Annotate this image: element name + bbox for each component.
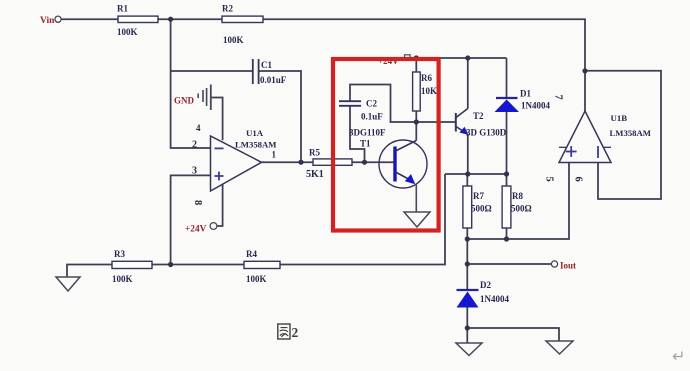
ground below T1 (404, 212, 430, 227)
wire ground to R3 (67, 265, 112, 278)
node Iout junction (465, 261, 470, 266)
wire emitter node horizontal (445, 173, 507, 175)
svg-text:C2: C2 (366, 99, 377, 109)
svg-text:R4: R4 (246, 249, 257, 259)
svg-text:4: 4 (196, 123, 201, 133)
terminal Iout (551, 261, 576, 271)
wire C1 left (171, 70, 253, 72)
ground below D2 left (456, 343, 482, 356)
svg-text:U1B: U1B (611, 113, 628, 123)
svg-text:R6: R6 (421, 73, 432, 83)
svg-text:+24V: +24V (185, 225, 207, 235)
wire U1A output to R5 (262, 161, 314, 163)
svg-text:500Ω: 500Ω (471, 204, 492, 214)
wire pin3 to left rail down to R3-R4 node (171, 175, 211, 264)
node R1-R2 junction (168, 17, 173, 22)
svg-text:T2: T2 (473, 111, 484, 121)
svg-text:LM358AM: LM358AM (235, 140, 277, 150)
svg-text:GND: GND (174, 96, 195, 106)
svg-text:2: 2 (192, 140, 197, 151)
svg-text:1: 1 (272, 150, 277, 160)
wire left rail top: node A down to pin2 (171, 19, 211, 148)
wire R6 leads (415, 58, 417, 72)
svg-text:8: 8 (192, 200, 203, 205)
ground left of R3 (56, 277, 80, 291)
terminal +24V (U1A pin8) (185, 223, 217, 235)
svg-text:Vin: Vin (40, 16, 55, 26)
wire ground right branch (467, 328, 559, 341)
transistor T1 3DG110F (349, 128, 427, 189)
transistor T2 3DG130D (456, 109, 507, 138)
svg-text:↵: ↵ (672, 349, 685, 366)
node T2 collector junction (465, 55, 470, 60)
svg-text:7: 7 (553, 95, 564, 100)
svg-text:100K: 100K (117, 27, 138, 37)
node R7 bottom junction (465, 236, 470, 241)
svg-text:1N4004: 1N4004 (480, 294, 509, 304)
wire C2 top loop to R6 node (350, 85, 416, 123)
svg-text:U1A: U1A (246, 128, 264, 138)
wire R6 node to T2 base (416, 121, 455, 123)
node D1 bottom junction (504, 171, 509, 176)
svg-text:R7: R7 (473, 191, 484, 201)
ground below D2 right (546, 341, 573, 354)
wire R1 to R2 with node (158, 18, 222, 20)
wire Iout branch (467, 239, 551, 264)
wire Vin to R1 (62, 18, 119, 20)
wire T1 collector up (415, 122, 417, 141)
wire T1 emitter down (415, 184, 417, 212)
resistor R3 (112, 249, 152, 284)
wire R8 leads (506, 174, 508, 186)
red highlight box (333, 59, 439, 231)
diode D1 1N4004 (495, 89, 551, 113)
svg-text:3DG110F: 3DG110F (349, 128, 386, 138)
resistor R7 (463, 186, 492, 228)
wire C2 bottom to base node (350, 106, 365, 162)
svg-text:D2: D2 (480, 280, 491, 290)
wire T2 collector up to rail (467, 58, 469, 109)
svg-text:100K: 100K (112, 274, 133, 284)
terminal Vin (40, 16, 61, 26)
svg-text:3: 3 (192, 166, 197, 177)
capacitor C2 (339, 101, 361, 106)
wire R2 to top-right corner down to U1B (263, 19, 585, 111)
svg-text:500Ω: 500Ω (511, 204, 532, 214)
node R6 top junction (414, 55, 419, 60)
svg-text:R3: R3 (114, 249, 125, 259)
svg-text:LM358AM: LM358AM (610, 128, 652, 138)
svg-text:5K1: 5K1 (306, 169, 324, 180)
svg-text:R8: R8 (512, 191, 523, 201)
node R3-R4 junction (168, 262, 173, 267)
wire R3 to R4 (152, 264, 244, 266)
svg-text:Iout: Iout (560, 261, 576, 271)
wire R4 right to emitter node rail (280, 174, 445, 265)
op-amp U1B (544, 95, 652, 182)
node U1B output junction (582, 68, 587, 73)
resistor R5 (306, 148, 352, 181)
wire R5 to T1 base (352, 161, 394, 163)
svg-text:C1: C1 (261, 60, 272, 70)
wire D2 top lead (466, 264, 468, 290)
node R6 bottom junction (414, 119, 419, 124)
svg-text:T1: T1 (360, 139, 371, 149)
op-amp U1A (192, 123, 277, 205)
svg-text:100K: 100K (223, 35, 244, 45)
svg-text:0.01uF: 0.01uF (260, 75, 287, 85)
resistor R1 (117, 4, 158, 38)
wire D1 bottom lead (506, 112, 508, 174)
resistor R8 (502, 186, 532, 228)
wire U1B feedback loop output to pin6 (585, 71, 661, 199)
wire R7 leads (466, 174, 468, 186)
ground power-port GND (174, 85, 211, 111)
svg-text:R2: R2 (222, 4, 233, 14)
node T2 emitter junction (465, 171, 470, 176)
figure caption 图2 (278, 324, 299, 340)
resistor R6 (413, 72, 437, 111)
capacitor C1 (253, 59, 259, 84)
wire D2 bottom lead to ground node (466, 308, 468, 329)
node output-C1 junction (298, 160, 303, 165)
wire R7R8 bottom to U1B pin5 (467, 163, 569, 240)
svg-text:100K: 100K (246, 274, 267, 284)
svg-text:2: 2 (292, 325, 299, 340)
svg-text:10K: 10K (421, 86, 437, 96)
svg-text:R1: R1 (117, 4, 128, 14)
svg-text:5: 5 (544, 177, 555, 182)
node R8 bottom junction (504, 236, 509, 241)
node D2 ground junction (465, 325, 470, 330)
wire U1A pin4 from GND port (212, 98, 223, 141)
wire D1 top lead (506, 58, 508, 98)
diode D2 1N4004 (457, 280, 510, 308)
wire ground left below D2 (466, 328, 468, 343)
svg-text:3D G130D: 3D G130D (466, 128, 507, 138)
svg-text:R5: R5 (309, 148, 320, 158)
svg-text:D1: D1 (520, 89, 531, 99)
terminal +24V rail (378, 55, 410, 66)
node T1 base junction (362, 160, 367, 165)
svg-text:1N4004: 1N4004 (521, 101, 550, 111)
resistor R2 (222, 4, 263, 46)
wire +24V rail (411, 57, 507, 59)
svg-text:6: 6 (573, 177, 584, 182)
wire C1 right down to output node (259, 71, 301, 162)
wire T2 emitter down to node (467, 134, 469, 174)
wire U1A pin8 to +24V terminal (217, 185, 222, 227)
resistor R4 (244, 249, 280, 284)
svg-text:0.1uF: 0.1uF (361, 112, 383, 122)
